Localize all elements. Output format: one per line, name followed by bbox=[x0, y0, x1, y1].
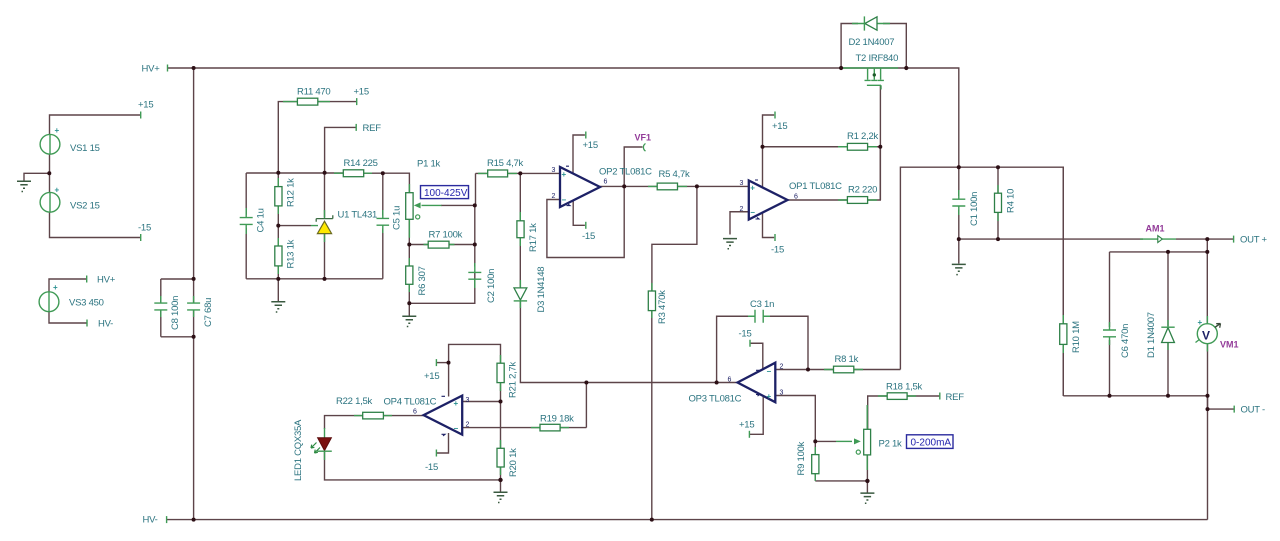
svg-text:+15: +15 bbox=[739, 420, 754, 431]
resistor R17 1k bbox=[517, 212, 524, 246]
ground below R13 bbox=[271, 302, 285, 312]
wire OP3 plus supply bottom bbox=[750, 393, 763, 434]
opamp OP2 TL081C bbox=[560, 166, 600, 207]
resistor R12 1k bbox=[275, 178, 282, 214]
resistor R19 18k bbox=[531, 424, 569, 431]
svg-text:LED1 CQX35A: LED1 CQX35A bbox=[293, 419, 304, 481]
svg-text:R21 2,7k: R21 2,7k bbox=[508, 361, 519, 398]
wire C1 span bbox=[958, 167, 960, 239]
wire x475 down to R7 right and C2 bbox=[474, 205, 476, 266]
wire TL431 ref stub bbox=[278, 225, 311, 227]
svg-text:R1 2,2k: R1 2,2k bbox=[847, 131, 878, 142]
svg-text:-15: -15 bbox=[771, 245, 784, 256]
svg-text:+15: +15 bbox=[583, 140, 598, 151]
svg-text:+: + bbox=[1198, 318, 1203, 327]
svg-text:-15: -15 bbox=[425, 462, 438, 473]
svg-text:-15: -15 bbox=[138, 223, 151, 234]
wire OP2 out to R5 bbox=[600, 185, 657, 187]
wire OP3 inverting row y369 bbox=[775, 369, 900, 371]
wire OP1 supply plus bbox=[763, 115, 775, 190]
svg-text:100-425V: 100-425V bbox=[424, 188, 468, 199]
svg-text:R13 1k: R13 1k bbox=[286, 239, 297, 268]
wire OP4 pin3 bbox=[462, 401, 500, 403]
svg-text:R5 4,7k: R5 4,7k bbox=[659, 169, 690, 180]
svg-text:+: + bbox=[562, 170, 567, 179]
svg-text:R9 100k: R9 100k bbox=[796, 441, 807, 475]
svg-text:HV-: HV- bbox=[143, 515, 158, 526]
svg-text:+: + bbox=[767, 392, 772, 401]
wire OUT+ down to meter row bbox=[1206, 239, 1208, 252]
svg-text:R18 1,5k: R18 1,5k bbox=[886, 382, 923, 393]
svg-text:2: 2 bbox=[780, 364, 784, 371]
resistor R9 100k bbox=[812, 447, 819, 481]
wire C8 C7 top link bbox=[161, 278, 194, 280]
voltage source VS3 450 bbox=[39, 283, 59, 312]
wire VS1 VS2 midpoint bbox=[49, 154, 51, 192]
wire R22 to LED bbox=[325, 416, 363, 429]
wire OP1 pin2 ground bbox=[730, 212, 749, 235]
wire C8 branch bbox=[160, 279, 162, 337]
svg-text:D2 1N4007: D2 1N4007 bbox=[849, 37, 895, 48]
capacitor C5 1u bbox=[377, 210, 390, 233]
wire ground stub below R13 bbox=[277, 279, 279, 301]
svg-text:C4 1u: C4 1u bbox=[256, 208, 267, 232]
wire ground stub below R6 bbox=[408, 303, 410, 316]
wire C2 bottom to R6 junction bbox=[409, 273, 475, 303]
wire R15 left drop bbox=[475, 173, 477, 205]
resistor R18 1,5k bbox=[878, 393, 916, 400]
terminal HV+ VS3 bbox=[86, 276, 88, 283]
svg-text:−: − bbox=[767, 367, 772, 376]
svg-text:P2 1k: P2 1k bbox=[879, 439, 903, 450]
wire HV- bus bottom bbox=[167, 519, 1208, 521]
wire R21 R20 vertical bbox=[500, 402, 502, 480]
opamp OP4 TL081C bbox=[424, 396, 463, 436]
value box 100-425V bbox=[421, 186, 469, 199]
terminal +15 OP2 bbox=[585, 132, 587, 139]
svg-text:HV-: HV- bbox=[98, 319, 113, 330]
capacitor C4 1u bbox=[240, 208, 253, 234]
diode D2 1N4007 bbox=[852, 16, 890, 30]
mosfet T2 IRF840 bbox=[843, 68, 898, 90]
svg-text:C6 470n: C6 470n bbox=[1120, 324, 1131, 358]
svg-text:C7 68u: C7 68u bbox=[203, 298, 214, 327]
wire output row y239 bbox=[959, 238, 1234, 240]
resistor R6 307 bbox=[406, 258, 413, 292]
wire main left vertical HV+ to HV- bbox=[193, 68, 195, 520]
wire VM1 span bbox=[1206, 252, 1208, 409]
wire R10 span bbox=[1062, 167, 1064, 396]
wire P1 wiper to x475 bbox=[441, 204, 475, 206]
wire OUT- branch bbox=[1208, 396, 1235, 520]
svg-text:R10 1M: R10 1M bbox=[1071, 321, 1082, 353]
wire C6 span bbox=[1109, 252, 1111, 396]
terminal REF left bbox=[355, 124, 357, 131]
wire C4 branch top bbox=[245, 173, 247, 215]
terminal +15 OP1 bbox=[774, 112, 776, 119]
svg-text:T2 IRF840: T2 IRF840 bbox=[856, 53, 899, 64]
svg-text:+15: +15 bbox=[354, 87, 369, 98]
svg-text:C8 100n: C8 100n bbox=[170, 296, 181, 330]
capacitor C8 100n bbox=[154, 296, 167, 317]
wire OP4 minus supply bbox=[437, 433, 449, 453]
terminal OUT- bbox=[1233, 406, 1235, 413]
svg-text:OP2 TL081C: OP2 TL081C bbox=[599, 167, 652, 178]
wire TL431 bottom bus bbox=[246, 278, 383, 280]
wire D3 R19 link vertical bbox=[585, 383, 587, 428]
svg-text:2: 2 bbox=[740, 206, 744, 213]
svg-text:R4 10: R4 10 bbox=[1006, 189, 1017, 213]
wire meter top row y252 bbox=[1110, 251, 1208, 253]
svg-text:C3 1n: C3 1n bbox=[750, 299, 774, 310]
wire C3 left loop bbox=[717, 316, 755, 382]
wire OP3 pin3 to P2 wiper junction bbox=[775, 396, 815, 442]
svg-text:+15: +15 bbox=[424, 371, 439, 382]
capacitor C1 100n bbox=[952, 190, 965, 215]
diode D1 1N4007 bbox=[1161, 320, 1174, 350]
terminal +15 VS1 bbox=[140, 112, 142, 119]
svg-text:VF1: VF1 bbox=[635, 133, 652, 143]
terminal HV+ top bbox=[167, 65, 169, 72]
svg-text:R8 1k: R8 1k bbox=[835, 354, 859, 365]
resistor R10 1M bbox=[1060, 315, 1067, 353]
svg-text:R14 225: R14 225 bbox=[344, 158, 378, 169]
wire P2 bottom ground stub bbox=[866, 455, 868, 492]
wire VS2 to -15 terminal bbox=[50, 212, 141, 237]
svg-text:R11 470: R11 470 bbox=[297, 87, 330, 98]
wire OP1 supply minus bbox=[763, 210, 775, 238]
wire R14 to C5 junction and P1 bbox=[364, 173, 410, 192]
svg-text:OP3 TL081C: OP3 TL081C bbox=[689, 394, 742, 405]
svg-text:REF: REF bbox=[363, 123, 382, 134]
resistor R2 220 bbox=[838, 197, 877, 204]
svg-text:R19 18k: R19 18k bbox=[540, 414, 574, 425]
voltmeter VM1 bbox=[1196, 316, 1221, 352]
wire D2 right leg bbox=[883, 24, 906, 69]
svg-text:3: 3 bbox=[466, 397, 470, 404]
svg-text:U1 TL431: U1 TL431 bbox=[338, 210, 378, 221]
terminal +15 R11 bbox=[356, 98, 358, 105]
svg-text:VS3 450: VS3 450 bbox=[69, 298, 104, 309]
svg-text:3: 3 bbox=[740, 180, 744, 187]
capacitor C2 100n bbox=[468, 263, 481, 288]
svg-text:-15: -15 bbox=[582, 231, 595, 242]
shunt regulator U1 TL431 bbox=[311, 210, 333, 242]
wire P1 bottom to R7 junction bbox=[408, 219, 410, 244]
wire R7 leads bbox=[409, 244, 475, 246]
wire C5 branch bbox=[382, 173, 384, 279]
wire R5 junction down to R3 bbox=[652, 186, 697, 290]
capacitor C7 68u bbox=[187, 296, 200, 317]
svg-text:D1 1N4007: D1 1N4007 bbox=[1146, 312, 1157, 358]
wire R21 to pin3 junction bbox=[500, 383, 502, 401]
wire x900 sense line bbox=[900, 167, 958, 369]
wire R17 span bbox=[519, 173, 521, 287]
terminal -15 OP1 bbox=[774, 234, 776, 241]
diode D3 1N4148 bbox=[514, 280, 527, 308]
wire R18 to REF tick bbox=[908, 395, 940, 397]
resistor R8 1k bbox=[824, 366, 863, 373]
svg-text:R20 1k: R20 1k bbox=[508, 448, 519, 477]
svg-text:R3 470k: R3 470k bbox=[657, 290, 668, 324]
wire R6 span bbox=[408, 245, 410, 304]
svg-text:REF: REF bbox=[946, 392, 965, 403]
wire R12 body span bbox=[277, 173, 279, 226]
wire VF1 stub bbox=[624, 147, 642, 186]
resistor R1 2,2k bbox=[838, 143, 877, 150]
svg-text:R22 1,5k: R22 1,5k bbox=[336, 396, 373, 407]
svg-text:HV+: HV+ bbox=[142, 64, 161, 75]
svg-text:C2 100n: C2 100n bbox=[486, 269, 497, 303]
svg-text:R17 1k: R17 1k bbox=[528, 223, 539, 252]
terminal -15 OP4 bbox=[435, 450, 437, 457]
svg-text:OP1 TL081C: OP1 TL081C bbox=[789, 181, 842, 192]
svg-text:2: 2 bbox=[466, 422, 470, 429]
svg-text:OP4 TL081C: OP4 TL081C bbox=[384, 397, 437, 408]
wire TL431 cathode anode bbox=[324, 173, 326, 279]
capacitor C6 470n bbox=[1103, 322, 1116, 345]
svg-text:+: + bbox=[55, 186, 60, 195]
wire R19 row bbox=[462, 427, 586, 429]
svg-text:+15: +15 bbox=[772, 121, 787, 132]
wire VS1 to +15 terminal bbox=[50, 115, 141, 134]
terminal -15 OP3 bbox=[749, 340, 751, 347]
wire OP2 supply minus bbox=[573, 200, 585, 225]
terminal OUT+ bbox=[1233, 236, 1235, 243]
wire VS3 to HV- terminal bbox=[49, 312, 87, 323]
svg-text:6: 6 bbox=[794, 194, 798, 201]
wire C1 ground stub bbox=[958, 239, 960, 263]
wire C4 branch bottom bbox=[245, 228, 247, 279]
svg-text:6: 6 bbox=[604, 179, 608, 186]
wire P2 top to R18 bbox=[868, 396, 887, 429]
terminal HV- bottom bbox=[166, 516, 168, 523]
resistor R3 470k bbox=[648, 283, 655, 318]
wire R13 span bbox=[277, 226, 279, 279]
wire R11 to +15 tick bbox=[318, 101, 357, 103]
svg-text:+: + bbox=[53, 283, 58, 292]
wire OP4 top rail bbox=[449, 344, 501, 396]
ammeter AM1 bbox=[1140, 236, 1176, 243]
ground below R20 bbox=[494, 492, 508, 502]
svg-text:2: 2 bbox=[552, 193, 556, 200]
potentiometer P1 1k bbox=[406, 184, 442, 238]
wire C8 C7 bottom link bbox=[161, 336, 194, 338]
svg-text:−: − bbox=[454, 424, 459, 433]
wire VS3 to HV+ terminal bbox=[49, 279, 87, 292]
wire OP3 minus supply top bbox=[751, 343, 763, 372]
wire HV+ bus top bbox=[168, 68, 959, 167]
svg-text:R12 1k: R12 1k bbox=[286, 178, 297, 207]
resistor R5 4,7k bbox=[648, 183, 687, 190]
resistor R21 2,7k bbox=[497, 355, 504, 391]
wire OP4 out to R22 bbox=[384, 415, 424, 417]
wire ground below R20 bbox=[500, 480, 502, 492]
wire OP2 supply plus bbox=[573, 135, 585, 174]
svg-text:C1 100n: C1 100n bbox=[969, 192, 980, 226]
svg-text:D3 1N4148: D3 1N4148 bbox=[536, 267, 547, 313]
svg-text:−: − bbox=[750, 208, 755, 217]
svg-text:V: V bbox=[1202, 329, 1210, 343]
svg-text:6: 6 bbox=[728, 377, 732, 384]
wire D3 down and across to OP3 bbox=[520, 301, 737, 382]
net stub VF1 arc bbox=[643, 144, 645, 152]
ground below C1 bbox=[952, 264, 966, 274]
resistor R15 4,7k bbox=[478, 170, 517, 177]
wire OP1 out R2 row bbox=[788, 147, 881, 200]
svg-text:OUT -: OUT - bbox=[1241, 405, 1266, 416]
wire R1 row bbox=[763, 146, 881, 148]
wire R9 span bbox=[814, 441, 816, 481]
svg-text:R7 100k: R7 100k bbox=[429, 230, 463, 241]
wire LED bottom return bbox=[325, 452, 501, 480]
wire T2 gate down bbox=[879, 85, 881, 200]
svg-text:0-200mA: 0-200mA bbox=[911, 437, 952, 448]
wire OP4 plus15 tick bbox=[437, 362, 449, 364]
svg-text:3: 3 bbox=[552, 167, 556, 174]
wire R11 branch bbox=[278, 102, 297, 173]
svg-text:+: + bbox=[750, 184, 755, 193]
terminal HV- VS3 bbox=[86, 320, 88, 327]
resistor R13 1k bbox=[275, 238, 282, 274]
svg-text:AM1: AM1 bbox=[1146, 224, 1165, 234]
resistor R7 100k bbox=[424, 241, 455, 248]
resistor R20 1k bbox=[497, 440, 504, 475]
ground below R6 bbox=[402, 316, 416, 326]
svg-text:HV+: HV+ bbox=[97, 275, 116, 286]
wire meter bottom row bbox=[1063, 395, 1207, 397]
terminal -15 VS2 bbox=[140, 234, 142, 241]
svg-text:R15 4,7k: R15 4,7k bbox=[487, 158, 524, 169]
LED LED1 CQX35A bbox=[311, 428, 332, 460]
wire TL431 top bus bbox=[246, 172, 343, 174]
svg-text:+15: +15 bbox=[138, 100, 153, 111]
terminal REF right bbox=[939, 393, 941, 400]
wire C3 right loop bbox=[764, 316, 809, 369]
svg-text:−: − bbox=[562, 196, 567, 205]
terminal +15 OP3 bbox=[748, 431, 750, 438]
wire D2 left leg bbox=[841, 24, 858, 69]
svg-text:+: + bbox=[454, 399, 459, 408]
wire R5 right to junction bbox=[678, 185, 749, 187]
resistor R11 470 bbox=[283, 98, 330, 105]
wire R9 bottom to P2 bottom bbox=[815, 480, 867, 482]
wire REF branch bbox=[325, 127, 356, 172]
svg-text:+: + bbox=[55, 126, 60, 135]
terminal +15 OP4 bbox=[435, 359, 437, 366]
svg-text:VS1 15: VS1 15 bbox=[70, 143, 100, 154]
resistor R4 10 bbox=[995, 185, 1002, 221]
opamp OP1 TL081C bbox=[749, 180, 788, 220]
wire R4 span bbox=[997, 167, 999, 239]
wire y167 to R10 corner bbox=[959, 167, 1064, 396]
opamp OP3 TL081C bbox=[738, 363, 776, 403]
wire R15 to OP2 pin3 bbox=[476, 172, 561, 174]
svg-text:VS2 15: VS2 15 bbox=[70, 201, 100, 212]
svg-text:-15: -15 bbox=[739, 329, 752, 340]
svg-text:P1 1k: P1 1k bbox=[417, 159, 441, 170]
svg-text:VM1: VM1 bbox=[1220, 340, 1239, 350]
wire wiper junction to P2 arrow bbox=[815, 440, 836, 442]
wire midpoint to ground bbox=[24, 173, 49, 180]
svg-text:R6 307: R6 307 bbox=[417, 266, 428, 295]
voltage source VS2 15 bbox=[40, 186, 60, 213]
ground below OP1 pin2 bbox=[723, 239, 737, 249]
svg-text:6: 6 bbox=[413, 409, 417, 416]
terminal -15 OP2 bbox=[585, 222, 587, 229]
resistor R14 225 bbox=[334, 170, 372, 177]
ground below P2 bbox=[860, 493, 874, 503]
wire OP2 feedback bbox=[547, 186, 624, 257]
svg-text:OUT +: OUT + bbox=[1240, 235, 1268, 246]
wire D1 span bbox=[1167, 252, 1169, 396]
svg-text:R2 220: R2 220 bbox=[848, 185, 877, 196]
svg-text:C5 1u: C5 1u bbox=[392, 206, 403, 230]
ground near VS1 VS2 bbox=[17, 181, 31, 191]
capacitor C3 1n bbox=[748, 310, 770, 323]
potentiometer P2 1k bbox=[836, 405, 871, 470]
resistor R22 1,5k bbox=[354, 412, 392, 419]
voltage source VS1 15 bbox=[40, 126, 60, 154]
svg-text:3: 3 bbox=[780, 390, 784, 397]
value box 0-200mA bbox=[907, 435, 954, 449]
wire R3 bottom to HV- bbox=[651, 311, 653, 520]
